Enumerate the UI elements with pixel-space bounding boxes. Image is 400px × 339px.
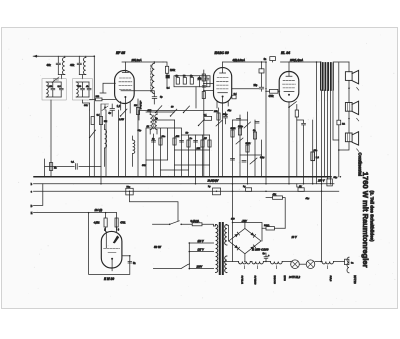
speaker LS3 [339,132,359,152]
tube EM80 [101,230,122,271]
small IF choke [105,130,107,149]
potentiometer 600k [102,104,109,111]
AGC branch wire [45,159,102,177]
wire left AGC vertical [90,104,119,184]
svg-text:470k: 470k [269,96,275,98]
capacitor 6,8k in can1 [59,82,63,97]
cathode resistor EL84 [296,105,298,111]
svg-text:1760 W mit Raumtonregler: 1760 W mit Raumtonregler [361,172,370,268]
coil L2 [84,58,86,75]
resistor 1k below bus [298,188,304,192]
svg-text:6V EL84: 6V EL84 [241,276,243,285]
svg-text:114 (2): 114 (2) [95,209,103,212]
svg-text:40μ: 40μ [305,197,310,200]
capacitor 1u below bus [246,188,252,192]
bus line c [34,190,339,192]
svg-text:1M: 1M [198,78,201,80]
output pickup coil [345,257,355,273]
svg-text:10n: 10n [162,136,166,138]
dense detector network wires [139,106,213,184]
speaker chain top wire [333,61,349,63]
bridge rectifier B250C100 [229,229,261,254]
IF coil T2 (tall) [151,62,155,96]
svg-text:EABC80: EABC80 [273,276,276,285]
svg-text:29,5(14)V: 29,5(14)V [207,180,219,183]
capacitor in can1 [46,82,61,97]
electrolytic 2x50u [213,188,221,195]
svg-text:-0,5M: -0,5M [94,223,100,225]
EM80 target wire right [122,255,130,257]
B+ feed wire [316,62,318,184]
capacitor in can2 [76,82,89,97]
svg-text:470k: 470k [120,223,126,225]
rectifier bottom wire [244,254,246,262]
speaker LS2 [345,101,358,133]
svg-text:(2. Teil des Schaltbildes): (2. Teil des Schaltbildes) [370,191,375,242]
svg-text:220V: 220V [196,266,203,269]
EM80 surrounding box wires [89,213,130,275]
svg-text:100Ω: 100Ω [264,225,270,227]
svg-text:EF85: EF85 [283,276,285,282]
wire B+ vertical [265,62,267,184]
coupling capacitor below T2 [152,97,157,104]
resistor 1k on AGC [49,163,52,171]
svg-text:30p: 30p [138,130,142,132]
svg-text:B 250 C100: B 250 C100 [252,247,269,251]
grid resistor column 1M [198,70,214,177]
wire can2 down [83,100,90,110]
power transformer [214,223,227,274]
mains switch [153,221,193,225]
svg-text:-70V: -70V [242,220,248,223]
wire down from detector to mains switch [130,191,179,221]
heater rail [224,261,345,263]
ratio detector coil T3 [150,111,157,135]
tube EABC80 [214,62,232,177]
svg-text:NF723: NF723 [353,275,357,284]
svg-text:2×TH E1,2: 2×TH E1,2 [288,276,301,279]
rectifier feed wires [227,223,262,242]
wire top bus down [93,56,95,177]
screen resistor 180k [163,62,167,66]
resistor network top right of EF85 [174,75,210,86]
heater winding stubs [244,266,327,269]
svg-text:25k: 25k [196,148,201,150]
speaker return wire [338,63,340,177]
capacitor on speaker line [337,120,341,125]
svg-text:1M: 1M [204,138,207,140]
svg-text:25k: 25k [213,111,218,113]
svg-text:47k: 47k [175,135,180,138]
resistor 0,5M [105,213,107,218]
dial lamp 1 [291,260,300,269]
svg-text:40k: 40k [47,63,52,67]
electrolytic on heater node [264,253,268,262]
wire anode supply with label 205,2mA [122,61,163,63]
svg-text:280(1,4)mA: 280(1,4)mA [289,59,303,62]
svg-text:40k: 40k [70,63,75,67]
output transformer [321,62,334,90]
svg-text:6V EM80: 6V EM80 [254,276,256,286]
fuse 0,4/0,2A [192,223,202,226]
svg-text:40μ: 40μ [227,109,232,112]
svg-text:1M: 1M [134,105,137,107]
trimmer capacitor 2p [52,77,59,83]
heater winding group 2 [252,262,264,264]
volume control cluster [231,112,262,262]
wire to EF85 grid2 [100,83,115,93]
svg-text:53 W: 53 W [154,245,162,249]
svg-text:100p: 100p [238,126,244,128]
tube EF85 [115,62,155,177]
line d stub [34,184,43,206]
heater winding group 4 [322,262,334,264]
switch contact left [90,130,96,138]
capacitor 5n EM80 [128,262,132,264]
heater winding group 1 [238,262,250,264]
resistor cluster detector [152,138,212,147]
voltage selector [153,242,213,269]
bus line b [34,183,335,185]
coupling capacitor 20p [232,87,264,91]
resistor 1,5M [137,99,139,177]
resistor 47k right [312,120,314,184]
svg-text:D: D [31,205,33,208]
svg-text:0,4/0,2A: 0,4/0,2A [191,220,200,223]
tube EL84 [279,62,299,102]
capacitor 6n [270,57,276,61]
resistor 470k [115,218,118,227]
svg-text:4(0),0,8mA: 4(0),0,8mA [233,59,246,62]
wire with label 280(1,4)mA [281,61,321,63]
coil L4 in can2 [76,82,78,97]
capacitor 0,1u AGC [75,164,77,170]
filter resistor 100 [262,227,285,229]
scan speckle [8,31,395,304]
wire top input bus [37,55,94,57]
bus line a (thick) [34,176,331,178]
shield can 2 [73,79,93,100]
capacitor 0,1u [91,117,94,125]
decoupling capacitor (dark) [166,75,170,79]
svg-text:500p: 500p [223,114,229,116]
transformer secondary wires down [322,90,339,262]
EABC output network [204,95,237,177]
svg-text:205,2mA: 205,2mA [131,59,142,62]
capacitor2 in can2 [87,82,91,97]
EF85 output cluster: caps and switch [110,104,115,116]
svg-text:250 V: 250 V [317,180,325,183]
svg-text:0,1μ: 0,1μ [260,157,265,159]
grid stopper resistor 600 [90,98,116,100]
svg-text:20 V: 20 V [291,236,297,239]
svg-text:500k: 500k [231,128,237,130]
svg-text:E M 80: E M 80 [104,277,114,281]
capacitor 40k unit1 [56,56,60,74]
coil L1 [63,58,65,75]
misc value labels [84,88,338,258]
wire network down [195,87,197,108]
speaker LS1 [345,62,358,103]
switch contacts detector [156,106,177,116]
cathode capacitor EL84 [297,120,306,184]
EL84 cathode switch [289,102,296,108]
heater winding group 3 [270,262,282,264]
resistor 47k horizontal [266,198,285,229]
svg-text:10n: 10n [314,150,318,152]
svg-text:180k: 180k [170,70,176,72]
svg-text:EL 84: EL 84 [281,51,290,55]
svg-text:EABC 80: EABC 80 [215,51,229,55]
coupling box on B+ stub [261,62,263,69]
shield can 1 [42,79,66,100]
svg-text:5M: 5M [104,121,107,123]
svg-text:110 V: 110 V [198,240,204,243]
capacitor 40k unit2 [77,56,81,74]
junction dots on buses [50,176,341,192]
oscillator coil [133,136,135,166]
line e to EM80 [34,212,117,214]
svg-text:1,5M: 1,5M [119,119,124,121]
svg-text:EF 85: EF 85 [116,51,125,55]
wire with label 4(0),0,8mA [223,61,266,63]
electrolytic across bus right [327,179,332,186]
antenna input arrow [33,55,38,57]
svg-text:500k: 500k [246,143,252,145]
rotated heater labels [241,275,358,285]
svg-text:+12,8mA: +12,8mA [139,101,142,110]
coil L3 in can1 [46,82,48,97]
grid resistor 470k [266,90,280,92]
resistor 5M [99,117,102,125]
svg-text:6V0,3: 6V0,3 [329,276,331,282]
svg-text:127 V: 127 V [198,249,205,252]
svg-text:1Ω: 1Ω [342,124,345,126]
dial lamp 2 [299,260,315,269]
electrolytic 50u on line c [126,188,133,195]
wire can1 down [50,100,52,177]
